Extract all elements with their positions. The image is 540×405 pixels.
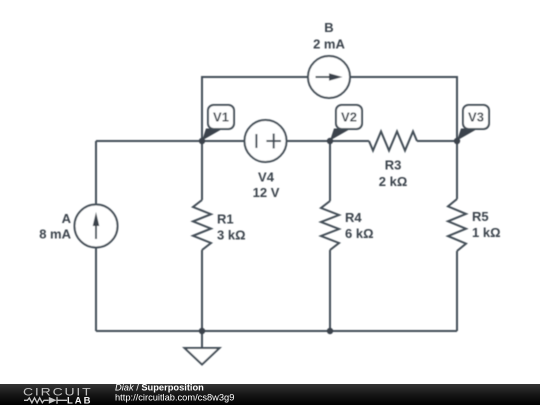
wire R4 top lead xyxy=(329,141,331,201)
node V2 junction dot xyxy=(327,138,333,144)
footer bar xyxy=(0,384,540,405)
wire R5 top lead xyxy=(456,141,458,199)
wire left branch xyxy=(95,141,97,331)
bottom junction dot at ground xyxy=(199,328,205,334)
node flag V1 xyxy=(202,105,234,141)
svg-text:R3: R3 xyxy=(385,158,402,173)
resistor R4 xyxy=(321,201,339,250)
node V1 junction dot xyxy=(199,138,205,144)
svg-text:V3: V3 xyxy=(468,110,484,125)
svg-text:6 kΩ: 6 kΩ xyxy=(345,226,374,241)
node flag V3 xyxy=(457,105,489,141)
voltage source V4 xyxy=(245,120,287,162)
resistor R1 xyxy=(193,200,211,250)
svg-text:8 mA: 8 mA xyxy=(39,226,71,241)
svg-text:LAB: LAB xyxy=(67,395,93,405)
ground xyxy=(185,331,220,365)
wire R1 top lead xyxy=(201,141,203,200)
svg-text:2 kΩ: 2 kΩ xyxy=(379,174,408,189)
current source B xyxy=(308,56,350,98)
svg-text:http://circuitlab.com/cs8w3g9: http://circuitlab.com/cs8w3g9 xyxy=(115,393,234,403)
svg-text:1 kΩ: 1 kΩ xyxy=(472,225,501,240)
current source A xyxy=(75,205,118,248)
resistor R3 xyxy=(369,132,417,151)
svg-text:12 V: 12 V xyxy=(253,185,280,200)
wire top loop from node V1 up across to node V3 xyxy=(202,77,457,141)
svg-text:A: A xyxy=(62,211,72,226)
svg-text:2 mA: 2 mA xyxy=(313,37,345,52)
svg-text:R5: R5 xyxy=(472,209,489,224)
svg-text:B: B xyxy=(324,20,333,35)
svg-text:V1: V1 xyxy=(213,110,229,125)
svg-text:3 kΩ: 3 kΩ xyxy=(217,228,246,243)
wire middle rail right segment xyxy=(417,140,457,142)
wire R1 bottom lead xyxy=(201,250,203,331)
wire middle rail left segment xyxy=(96,140,369,142)
logo resistor-diode doodle xyxy=(24,398,49,403)
wire bottom rail xyxy=(96,330,457,332)
resistor R5 xyxy=(448,199,466,251)
node V3 junction dot xyxy=(454,138,460,144)
svg-text:R4: R4 xyxy=(345,210,362,225)
svg-text:V4: V4 xyxy=(258,170,275,185)
svg-text:V2: V2 xyxy=(341,110,357,125)
wire R5 bottom lead xyxy=(456,251,458,331)
svg-text:Diak / Superposition: Diak / Superposition xyxy=(115,382,204,392)
node flag V2 xyxy=(330,105,362,141)
bottom junction dot at R4 xyxy=(327,328,333,334)
svg-text:R1: R1 xyxy=(217,212,234,227)
wire R4 bottom lead xyxy=(329,250,331,331)
